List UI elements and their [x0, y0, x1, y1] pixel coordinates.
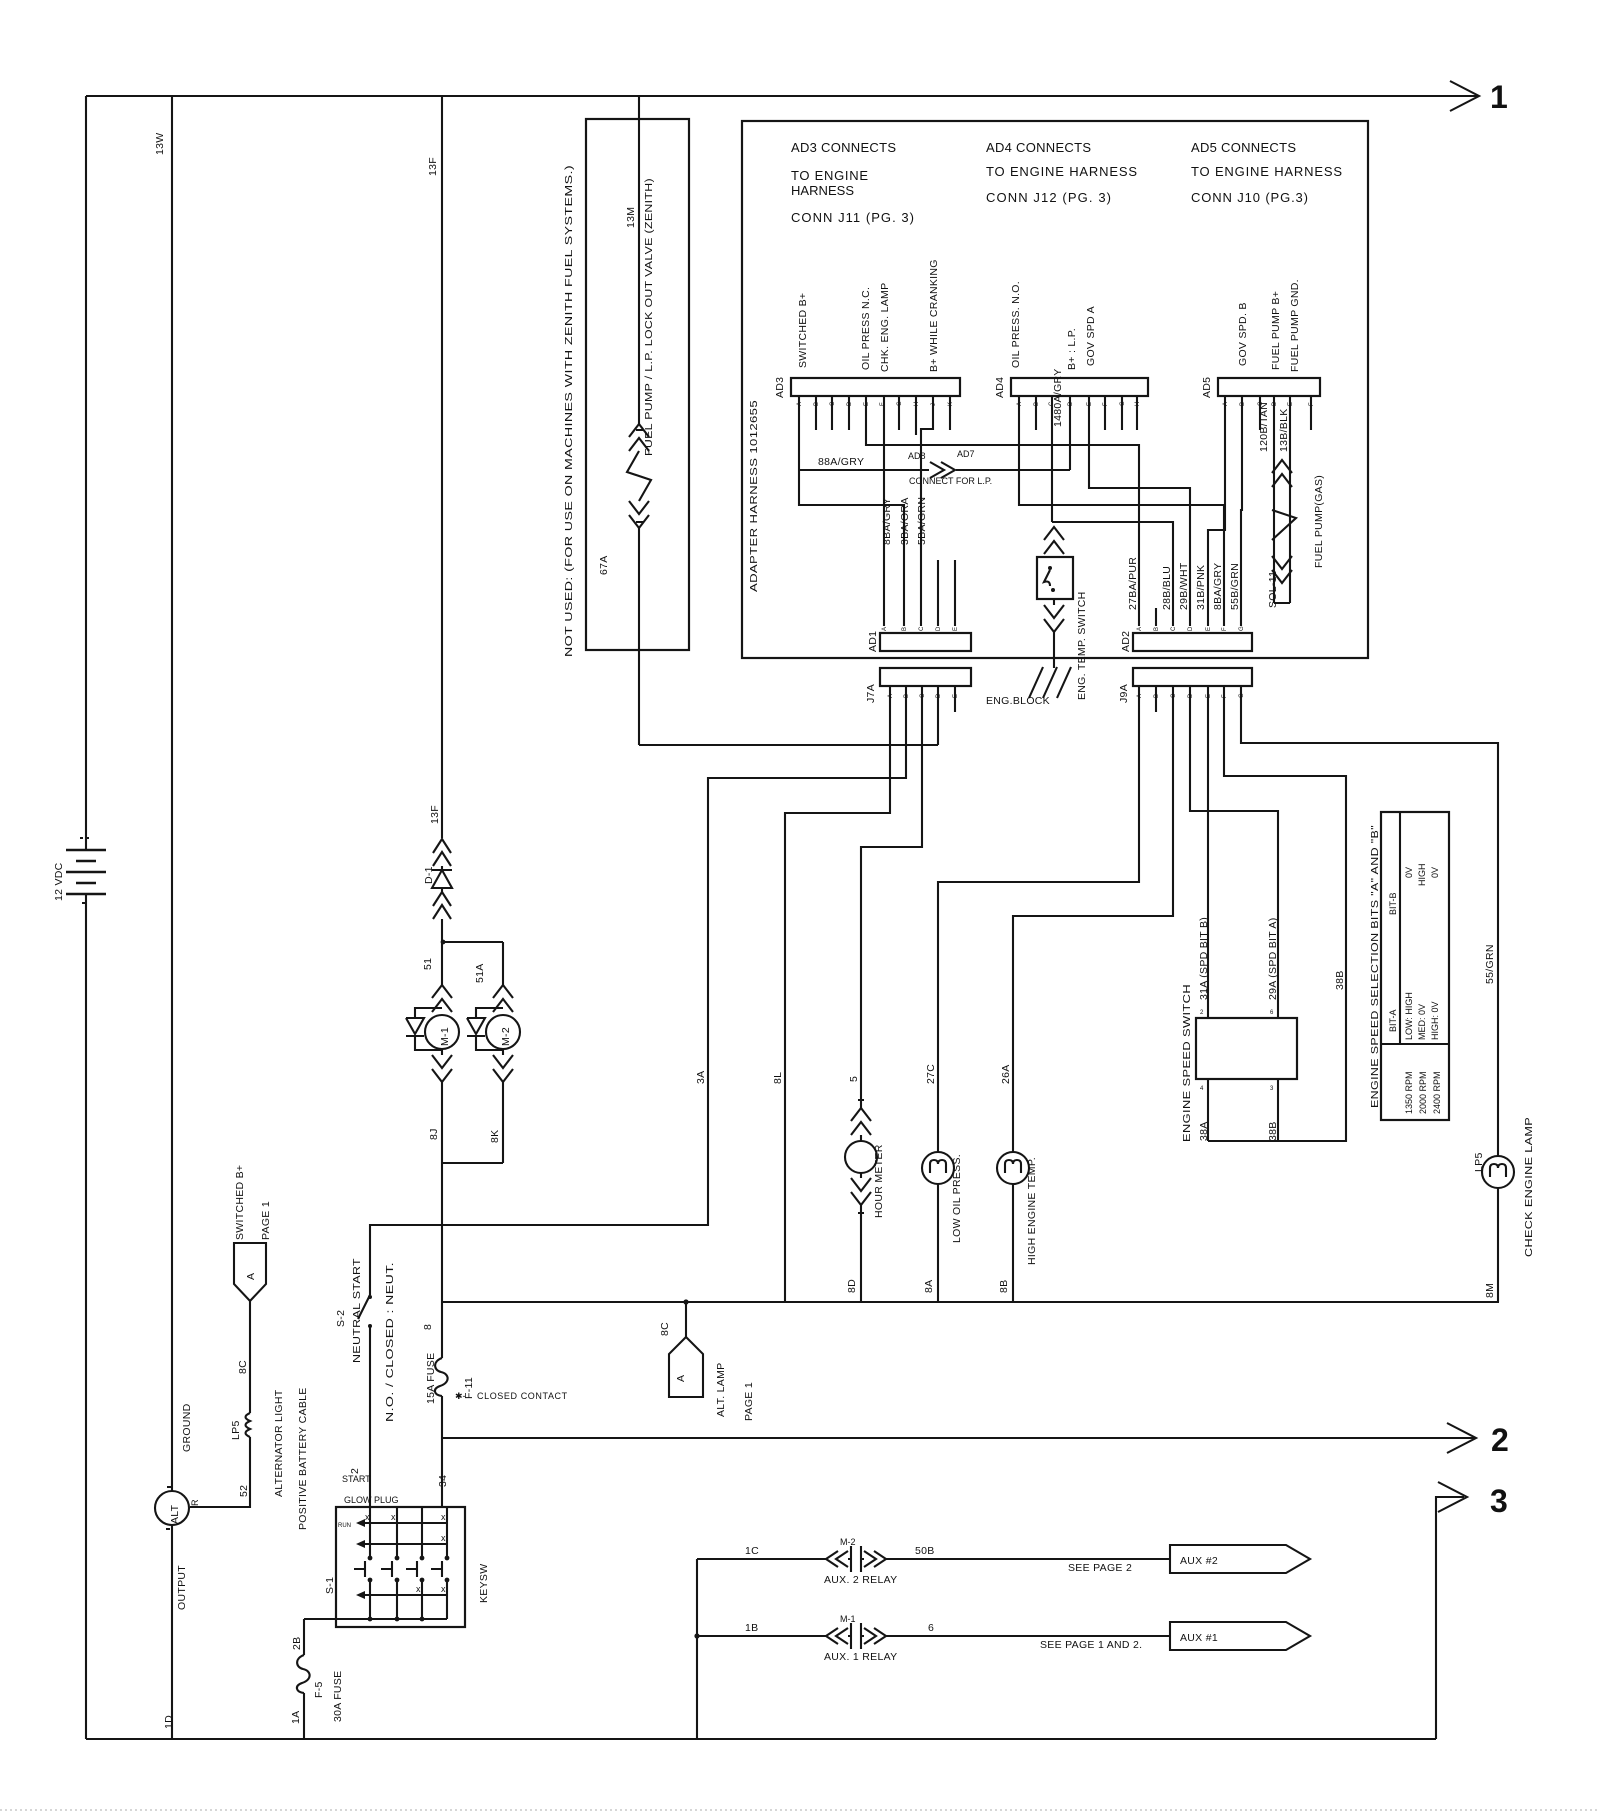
- hour meter: [845, 1141, 877, 1173]
- svg-text:E: E: [953, 627, 959, 631]
- wire AD3-E b+ while cranking to AD2-A: [866, 396, 1139, 626]
- svg-text:G: G: [1239, 693, 1245, 698]
- wire 13F continues to fuse: [441, 1163, 443, 1358]
- flyback diode of M-2: [467, 1008, 503, 1050]
- key switch row 2: [362, 1543, 447, 1545]
- wire AD5-B to AD2-G 55BA/GRN: [1241, 396, 1242, 626]
- svg-text:27C: 27C: [925, 1064, 937, 1084]
- svg-text:88A/GRY: 88A/GRY: [818, 456, 864, 468]
- svg-text:x: x: [441, 1584, 446, 1594]
- svg-text:8C: 8C: [659, 1322, 671, 1336]
- svg-text:S-1: S-1: [324, 1577, 336, 1594]
- wire 52 to alternator R: [190, 1437, 250, 1507]
- connector AD4: [1011, 378, 1148, 396]
- svg-text:2400 RPM: 2400 RPM: [1432, 1071, 1442, 1114]
- svg-text:RUN: RUN: [338, 1523, 351, 1529]
- connector chevrons above M-1: [432, 985, 452, 1012]
- svg-text:CONN J10 (PG.3): CONN J10 (PG.3): [1191, 190, 1309, 205]
- svg-text:x: x: [441, 1533, 446, 1543]
- svg-text:13F: 13F: [429, 805, 441, 824]
- svg-text:KEYSW: KEYSW: [478, 1564, 490, 1603]
- fuse F-5 30A: [297, 1655, 310, 1693]
- svg-text:GLOW PLUG: GLOW PLUG: [344, 1495, 399, 1505]
- svg-text:LOW: HIGH: LOW: HIGH: [1404, 992, 1414, 1040]
- svg-text:x: x: [416, 1584, 421, 1594]
- svg-text:2: 2: [1200, 1010, 1204, 1016]
- svg-text:M-1: M-1: [840, 1614, 856, 1624]
- relay coil M-2: [486, 1015, 520, 1049]
- svg-text:8M: 8M: [1484, 1283, 1496, 1298]
- svg-text:B: B: [1154, 627, 1160, 631]
- svg-text:R: R: [190, 1499, 200, 1506]
- svg-text:8C: 8C: [237, 1360, 249, 1374]
- svg-text:D-1: D-1: [423, 866, 435, 884]
- connector SWITCHED B+ page 1: [234, 1243, 266, 1301]
- svg-text:8J: 8J: [428, 1128, 440, 1140]
- svg-text:A: A: [882, 627, 888, 631]
- svg-text:F-5: F-5: [313, 1681, 325, 1698]
- svg-text:2: 2: [1491, 1422, 1509, 1458]
- lamp coil LP5: [246, 1413, 251, 1437]
- svg-text:13B/BLK: 13B/BLK: [1278, 408, 1290, 452]
- svg-text:HARNESS: HARNESS: [791, 183, 855, 198]
- svg-text:4: 4: [1200, 1086, 1204, 1092]
- wire 51: [441, 919, 443, 942]
- connector AD1: [880, 633, 971, 651]
- adapter harness enclosure: [742, 121, 1368, 658]
- svg-text:29B/WHT: 29B/WHT: [1178, 562, 1190, 610]
- svg-text:ENG.BLOCK: ENG.BLOCK: [986, 695, 1050, 707]
- svg-text:TO ENGINE HARNESS: TO ENGINE HARNESS: [1191, 164, 1343, 179]
- engine speed selection table: [1381, 812, 1449, 1120]
- svg-text:PAGE 1: PAGE 1: [260, 1201, 272, 1240]
- key switch column 1 contact: [354, 1507, 370, 1619]
- svg-text:31A (SPD BIT B): 31A (SPD BIT B): [1198, 917, 1210, 1000]
- solenoid SOL-11 fuel pump (gas): [1274, 455, 1290, 603]
- fuse F-11 15A: [435, 1358, 448, 1396]
- J7A-E stub: [954, 686, 956, 712]
- svg-text:NEUTRAL START: NEUTRAL START: [351, 1258, 363, 1363]
- svg-text:B+ WHILE CRANKING: B+ WHILE CRANKING: [928, 259, 940, 372]
- diode D-1: [433, 839, 451, 866]
- svg-text:NOT USED: (FOR USE ON MACHINES: NOT USED: (FOR USE ON MACHINES WITH ZENI…: [563, 165, 575, 657]
- engine speed switch: [1196, 1018, 1297, 1079]
- svg-text:B+ : L.P.: B+ : L.P.: [1066, 328, 1078, 370]
- svg-text:J7A: J7A: [865, 684, 877, 703]
- svg-text:C: C: [1171, 693, 1177, 698]
- svg-text:M-2: M-2: [500, 1027, 512, 1046]
- svg-text:C: C: [1171, 626, 1177, 631]
- svg-text:START: START: [342, 1474, 371, 1484]
- wire 8C to lamp LP5: [249, 1301, 251, 1413]
- not-used enclosure box: [586, 119, 689, 650]
- svg-text:AD8: AD8: [908, 451, 926, 461]
- svg-text:S-2: S-2: [335, 1310, 347, 1327]
- svg-text:D: D: [936, 693, 942, 698]
- svg-text:HIGH: HIGH: [1417, 864, 1427, 887]
- svg-text:E: E: [1206, 627, 1212, 631]
- wire 27C from J9A-A: [938, 686, 1139, 1152]
- svg-text:ALTERNATOR LIGHT: ALTERNATOR LIGHT: [273, 1389, 285, 1497]
- svg-text:8K: 8K: [489, 1130, 501, 1143]
- svg-text:HOUR METER: HOUR METER: [873, 1144, 885, 1218]
- wire battery positive (left vertical): [85, 96, 87, 849]
- key switch column 3 contact: [406, 1507, 422, 1619]
- svg-text:SEE PAGE 2: SEE PAGE 2: [1068, 1562, 1132, 1574]
- wire 38B from J9A-F: [1208, 686, 1346, 1141]
- flyback diode of M-1: [406, 1008, 442, 1050]
- wire 8L from J7A-A: [785, 686, 890, 1302]
- svg-text:SEE PAGE 1 AND 2.: SEE PAGE 1 AND 2.: [1040, 1639, 1142, 1651]
- svg-text:51: 51: [422, 958, 434, 970]
- svg-text:AUX #2: AUX #2: [1180, 1555, 1218, 1567]
- svg-text:2000 RPM: 2000 RPM: [1418, 1071, 1428, 1114]
- AD4 stub pins: [1036, 396, 1137, 430]
- svg-text:1C: 1C: [745, 1545, 759, 1557]
- svg-text:✱-: ✱-: [455, 1391, 466, 1401]
- svg-text:TO ENGINE HARNESS: TO ENGINE HARNESS: [986, 164, 1138, 179]
- svg-text:M-2: M-2: [840, 1537, 856, 1547]
- AD2-B stub: [1155, 608, 1157, 626]
- svg-text:29A (SPD BIT A): 29A (SPD BIT A): [1267, 917, 1279, 1000]
- svg-text:GOV SPD A: GOV SPD A: [1085, 306, 1097, 366]
- svg-text:5: 5: [848, 1076, 860, 1082]
- wire 88A/GRY with AD8/AD7 disconnect: [799, 396, 1070, 470]
- wire AD5-E fuel pump gnd: [1289, 396, 1291, 455]
- AD3 pin letters: [797, 401, 954, 406]
- wire AD4-E to AD2-D: [1089, 396, 1190, 626]
- svg-text:SWITCHED B+: SWITCHED B+: [797, 293, 809, 368]
- wire AD5-A to AD2-E 31BA/PNK: [1208, 396, 1225, 626]
- key switch S-1 KEYSW: [336, 1507, 465, 1627]
- svg-text:3A: 3A: [695, 1071, 707, 1084]
- wire 13W (ground line to alternator): [171, 96, 173, 1491]
- relay contact M-1 (aux 1): [826, 1623, 886, 1649]
- AD1 stub pins: [938, 560, 955, 626]
- svg-text:M-1: M-1: [439, 1027, 451, 1046]
- wire alternator output 1D: [171, 1525, 173, 1739]
- svg-text:FUEL PUMP B+: FUEL PUMP B+: [1270, 291, 1282, 370]
- svg-text:30A FUSE: 30A FUSE: [332, 1671, 344, 1722]
- AD5 stub pins: [1260, 396, 1311, 430]
- svg-text:HIGH: 0V: HIGH: 0V: [1430, 1001, 1440, 1040]
- svg-text:AUX #1: AUX #1: [1180, 1632, 1218, 1644]
- svg-text:BIT-B: BIT-B: [1388, 892, 1398, 915]
- svg-text:AD5 CONNECTS: AD5 CONNECTS: [1191, 140, 1297, 155]
- connector J9A: [1133, 668, 1252, 686]
- svg-text:1: 1: [1490, 79, 1508, 115]
- node join below relays: [442, 1162, 503, 1164]
- svg-text:CLOSED CONTACT: CLOSED CONTACT: [477, 1391, 568, 1401]
- svg-text:E: E: [1206, 694, 1212, 698]
- wire 1A: [303, 1693, 305, 1739]
- connector chevrons above temp switch: [1044, 527, 1064, 554]
- wire 13M to J7A-D: [639, 686, 938, 745]
- svg-text:x: x: [441, 1512, 446, 1522]
- wire 26A from J9A-C: [1013, 686, 1173, 1152]
- svg-text:CHECK ENGINE LAMP: CHECK ENGINE LAMP: [1523, 1117, 1535, 1257]
- wire AD4-A to AD2-F: [1019, 396, 1224, 626]
- svg-text:51A: 51A: [474, 963, 486, 983]
- svg-text:J9A: J9A: [1118, 684, 1130, 703]
- svg-text:5BA/GRN: 5BA/GRN: [916, 497, 928, 545]
- svg-text:AD5: AD5: [1201, 377, 1213, 398]
- svg-text:55/GRN: 55/GRN: [1484, 944, 1496, 984]
- wire 13M: [638, 96, 640, 424]
- wire 50B: [886, 1558, 1170, 1560]
- svg-text:15A FUSE: 15A FUSE: [425, 1353, 437, 1404]
- svg-text:CHK. ENG. LAMP: CHK. ENG. LAMP: [879, 283, 891, 372]
- svg-text:8BA/GRY: 8BA/GRY: [1212, 563, 1224, 610]
- off-page arrow 1: [1450, 81, 1479, 111]
- svg-text:N.O. / CLOSED : NEUT.: N.O. / CLOSED : NEUT.: [384, 1262, 396, 1422]
- svg-text:1A: 1A: [290, 1711, 302, 1724]
- svg-text:OIL PRESS. N.O.: OIL PRESS. N.O.: [1010, 281, 1022, 368]
- svg-text:8D: 8D: [846, 1279, 858, 1293]
- svg-text:6: 6: [1270, 1010, 1274, 1016]
- connector chevrons below hour meter: [851, 1173, 871, 1302]
- wire 13F (key feed vertical): [441, 96, 443, 838]
- svg-text:B: B: [902, 627, 908, 631]
- wire 38B switch side: [1277, 1079, 1279, 1141]
- connector J7A: [880, 668, 971, 686]
- high engine temp sender: [997, 1152, 1029, 1184]
- relay contact M-2 (aux 2): [826, 1546, 886, 1572]
- svg-text:38B: 38B: [1267, 1121, 1279, 1141]
- svg-text:BIT-A: BIT-A: [1388, 1009, 1398, 1032]
- svg-text:31B/PNK: 31B/PNK: [1195, 565, 1207, 610]
- svg-text:13F: 13F: [427, 157, 439, 176]
- page edge mark: [0, 1809, 1600, 1811]
- svg-text:AUX. 1 RELAY: AUX. 1 RELAY: [824, 1651, 897, 1663]
- wire 29A from J9A-D: [1190, 686, 1278, 1018]
- svg-text:ENG. TEMP. SWITCH: ENG. TEMP. SWITCH: [1076, 591, 1088, 700]
- wire 1 (top feed bus to page 1): [86, 95, 1478, 97]
- svg-text:C: C: [919, 626, 925, 631]
- svg-text:SWITCHED B+: SWITCHED B+: [234, 1165, 246, 1240]
- off-page arrow 3: [1438, 1482, 1467, 1512]
- wire S-2 to key switch: [369, 1326, 371, 1507]
- svg-text:ALT. LAMP: ALT. LAMP: [715, 1363, 727, 1417]
- key switch column 4 contact: [431, 1507, 447, 1619]
- svg-text:LP5: LP5: [1473, 1152, 1485, 1172]
- key switch column 2 contact: [381, 1507, 397, 1619]
- svg-text:CONN J11 (PG. 3): CONN J11 (PG. 3): [791, 210, 915, 225]
- wire 31A from J9A-E: [1207, 686, 1209, 1018]
- svg-text:12 VDC: 12 VDC: [53, 862, 65, 901]
- svg-text:8L: 8L: [772, 1072, 784, 1084]
- svg-text:TO ENGINE: TO ENGINE: [791, 168, 869, 183]
- svg-text:C: C: [920, 693, 926, 698]
- svg-text:0V: 0V: [1430, 867, 1440, 878]
- svg-text:2B: 2B: [291, 1637, 303, 1650]
- svg-text:LP5: LP5: [230, 1420, 242, 1440]
- svg-text:3: 3: [1490, 1483, 1508, 1519]
- wire 6: [886, 1635, 1170, 1637]
- svg-text:D: D: [1068, 401, 1074, 406]
- svg-text:SOL-11: SOL-11: [1267, 571, 1279, 608]
- svg-text:AD3: AD3: [774, 377, 786, 398]
- wire 55/GRN from J9A-G: [1241, 686, 1498, 1156]
- wire 5 from J7A-C: [861, 686, 922, 1108]
- svg-text:AD4 CONNECTS: AD4 CONNECTS: [986, 140, 1092, 155]
- key switch row 3: [362, 1594, 447, 1596]
- svg-text:F: F: [1222, 627, 1228, 631]
- wire 38A: [1207, 1079, 1209, 1141]
- svg-text:8A: 8A: [923, 1280, 935, 1293]
- svg-text:OIL PRESS N.C.: OIL PRESS N.C.: [860, 287, 872, 370]
- svg-text:1350 RPM: 1350 RPM: [1404, 1071, 1414, 1114]
- svg-text:8B: 8B: [998, 1280, 1010, 1293]
- svg-text:FUEL PUMP(GAS): FUEL PUMP(GAS): [1313, 475, 1325, 568]
- svg-text:AD3 CONNECTS: AD3 CONNECTS: [791, 140, 897, 155]
- ground ENG.BLOCK: [1029, 667, 1071, 698]
- svg-text:A: A: [245, 1273, 257, 1280]
- wire 2B: [303, 1619, 305, 1655]
- svg-text:GOV SPD. B: GOV SPD. B: [1237, 302, 1249, 366]
- svg-text:PAGE 1: PAGE 1: [743, 1382, 755, 1421]
- connector chevrons above hour meter: [851, 1100, 871, 1141]
- svg-text:AD1: AD1: [867, 631, 879, 652]
- svg-text:ADAPTER HARNESS 1012655: ADAPTER HARNESS 1012655: [748, 400, 760, 592]
- switch S-2 neutral start: [358, 1295, 370, 1319]
- wire 8 lamp bus: [442, 1301, 1499, 1303]
- svg-text:D: D: [1188, 693, 1194, 698]
- connector chevrons above M-2: [493, 985, 513, 1012]
- connector AD5: [1218, 378, 1320, 396]
- battery 12 VDC: [66, 850, 106, 894]
- svg-text:1480A/GRY: 1480A/GRY: [1052, 368, 1064, 427]
- svg-text:MED: 0V: MED: 0V: [1417, 1004, 1427, 1040]
- svg-text:67A: 67A: [598, 555, 610, 575]
- svg-text:GROUND: GROUND: [181, 1403, 193, 1452]
- svg-text:3: 3: [1270, 1086, 1274, 1092]
- key switch common row out: [304, 1618, 447, 1620]
- svg-text:D: D: [1188, 626, 1194, 631]
- svg-text:28B/BLU: 28B/BLU: [1161, 566, 1173, 610]
- svg-text:3BA/ORA: 3BA/ORA: [899, 497, 911, 545]
- svg-text:13M: 13M: [625, 207, 637, 228]
- svg-text:G: G: [1239, 626, 1245, 631]
- svg-text:LOW OIL PRESS.: LOW OIL PRESS.: [951, 1154, 963, 1243]
- svg-text:x: x: [391, 1512, 396, 1522]
- svg-text:38A: 38A: [1198, 1121, 1210, 1141]
- connector AD2: [1133, 633, 1252, 651]
- svg-text:AD4: AD4: [994, 377, 1006, 398]
- solenoid fuel pump / lock out valve (zenith): [629, 424, 649, 451]
- wire 34: [441, 1396, 443, 1507]
- svg-text:6: 6: [928, 1622, 934, 1634]
- relay coil M-1: [425, 1015, 459, 1049]
- check engine lamp LP5: [1482, 1156, 1514, 1188]
- svg-text:A: A: [888, 694, 894, 698]
- svg-text:8: 8: [422, 1324, 434, 1330]
- connector chevrons below M-1: [432, 1049, 452, 1163]
- svg-text:ENGINE SPEED SWITCH: ENGINE SPEED SWITCH: [1181, 984, 1193, 1142]
- svg-text:120B/TAN: 120B/TAN: [1258, 402, 1270, 452]
- svg-text:A: A: [1137, 694, 1143, 698]
- connector chevrons below temp switch: [1044, 599, 1064, 668]
- svg-text:F: F: [1222, 694, 1228, 698]
- svg-text:26A: 26A: [1000, 1064, 1012, 1084]
- svg-text:34: 34: [437, 1475, 449, 1487]
- svg-text:13W: 13W: [154, 133, 166, 156]
- connector AUX #2: [1170, 1545, 1310, 1573]
- wire 3A from J7A-B: [370, 686, 906, 1295]
- node alt lamp tap: [683, 1299, 688, 1304]
- wire to off-page arrow 2: [442, 1437, 1474, 1439]
- wire AD3-F to AD1-A 8BA/GRY: [883, 396, 885, 626]
- svg-text:HIGH ENGINE TEMP.: HIGH ENGINE TEMP.: [1026, 1157, 1038, 1265]
- svg-text:A: A: [675, 1375, 687, 1382]
- connector chevrons below M-2: [493, 1049, 513, 1163]
- connector AUX #1: [1170, 1622, 1310, 1650]
- svg-text:1D: 1D: [163, 1715, 175, 1729]
- AD3 stub pins: [816, 396, 950, 435]
- J9A-B stub: [1155, 686, 1157, 712]
- svg-text:52: 52: [238, 1485, 250, 1497]
- svg-text:A: A: [1137, 627, 1143, 631]
- temp switch: [1037, 557, 1073, 599]
- svg-text:POSITIVE BATTERY CABLE: POSITIVE BATTERY CABLE: [297, 1387, 309, 1530]
- wire to off-page arrow 3: [1436, 1497, 1464, 1739]
- node split M-1/M-2: [442, 942, 503, 986]
- svg-text:0V: 0V: [1404, 867, 1414, 878]
- wire aux feed vertical: [696, 1559, 698, 1739]
- alternator ALT: [155, 1491, 189, 1525]
- svg-text:8BA/GRY: 8BA/GRY: [881, 498, 893, 545]
- wire 1C: [697, 1558, 826, 1560]
- wire 28BA/BLU temp switch to AD2-C: [1052, 522, 1173, 626]
- svg-text:1B: 1B: [745, 1622, 758, 1634]
- off-page arrow 2: [1447, 1423, 1476, 1453]
- wire battery negative to ground bus: [85, 894, 87, 1739]
- svg-text:AD2: AD2: [1120, 631, 1132, 652]
- svg-text:AD7: AD7: [957, 449, 975, 459]
- svg-text:FUEL PUMP GND.: FUEL PUMP GND.: [1289, 279, 1301, 372]
- connector ALT. LAMP page 1: [669, 1337, 703, 1397]
- svg-text:B: B: [904, 694, 910, 698]
- svg-text:OUTPUT: OUTPUT: [176, 1565, 188, 1610]
- svg-text:D: D: [936, 626, 942, 631]
- wire 1B: [697, 1635, 826, 1637]
- connector AD3: [791, 378, 960, 396]
- wire AD4-C to temp switch: [1051, 396, 1053, 522]
- svg-text:FUEL PUMP / L.P. LOCK OUT VALV: FUEL PUMP / L.P. LOCK OUT VALVE (ZENITH): [643, 178, 655, 456]
- wire AD3-J to AD1-C 5BA/GRN: [921, 396, 933, 626]
- ground bus wire (bottom): [86, 1738, 1436, 1740]
- svg-text:50B: 50B: [915, 1545, 935, 1557]
- wire AD3-A switched B+: [799, 396, 904, 626]
- svg-text:27BA/PUR: 27BA/PUR: [1127, 557, 1139, 610]
- svg-text:ENGINE SPEED SELECTION BITS "A: ENGINE SPEED SELECTION BITS "A" AND "B": [1369, 825, 1381, 1108]
- svg-text:AUX. 2 RELAY: AUX. 2 RELAY: [824, 1574, 897, 1586]
- svg-text:ALT: ALT: [169, 1504, 181, 1524]
- low oil pressure sender: [922, 1152, 954, 1184]
- wire AD5-D fuel pump B+: [1273, 396, 1275, 455]
- svg-text:CONN J12 (PG. 3): CONN J12 (PG. 3): [986, 190, 1112, 205]
- svg-text:55B/GRN: 55B/GRN: [1229, 563, 1241, 610]
- svg-text:38B: 38B: [1334, 970, 1346, 990]
